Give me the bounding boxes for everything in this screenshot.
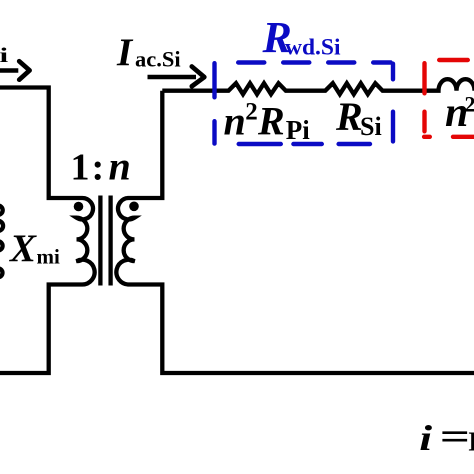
svg-text:Pi: Pi	[286, 115, 310, 145]
svg-text:wd.Si: wd.Si	[285, 35, 341, 61]
svg-text:i: i	[0, 43, 9, 67]
svg-text:I: I	[116, 31, 134, 74]
svg-text:=: =	[440, 415, 470, 457]
svg-text:Si: Si	[360, 112, 382, 141]
svg-text:R: R	[335, 94, 363, 139]
svg-text:ac.Si: ac.Si	[135, 47, 181, 72]
svg-text:i: i	[419, 418, 432, 458]
svg-text:I: I	[468, 427, 474, 457]
svg-text:n: n	[224, 98, 246, 143]
svg-text:1: 1	[71, 147, 90, 189]
svg-text:n: n	[109, 144, 131, 189]
svg-text:2: 2	[465, 92, 474, 117]
svg-text::: :	[92, 147, 105, 189]
svg-text:X: X	[9, 227, 37, 270]
svg-text:2: 2	[245, 98, 257, 125]
svg-text:mi: mi	[37, 245, 60, 269]
svg-text:R: R	[257, 99, 285, 144]
